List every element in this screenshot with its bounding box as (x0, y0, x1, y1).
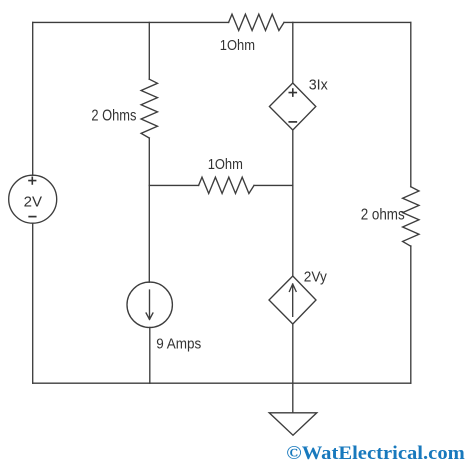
wire mid-left vertical middle (148, 138, 150, 282)
wire middle horizontal right (254, 184, 293, 186)
svg-text:9 Amps: 9 Amps (156, 336, 201, 353)
wire mid-right vertical top (292, 22, 294, 83)
dependent source E2 arrow (289, 284, 296, 316)
wire bottom (33, 382, 411, 384)
wire right upper (410, 22, 412, 186)
svg-text:2V: 2V (24, 193, 43, 210)
svg-text:2 Ohms: 2 Ohms (91, 107, 136, 124)
voltage source V1 minus sign (29, 216, 36, 218)
wire mid-right vertical middle (292, 130, 294, 276)
voltage source V1 plus sign (29, 177, 36, 184)
svg-text:2Vy: 2Vy (304, 268, 327, 285)
wire mid-right vertical bottom (292, 324, 294, 413)
wire left lower (32, 223, 34, 383)
wire left upper (32, 22, 34, 175)
svg-text:©WatElectrical.com: ©WatElectrical.com (286, 443, 465, 464)
dependent source E1 3Ix diamond (269, 83, 315, 130)
resistor R3 1Ohm (middle) (199, 177, 254, 193)
wire right lower (410, 246, 412, 383)
ground (269, 413, 317, 435)
svg-text:1Ohm: 1Ohm (220, 37, 255, 54)
wire top-left segment (33, 21, 229, 23)
resistor R2 2 Ohms (vertical) (141, 79, 157, 138)
voltage source V1 2V circle (9, 175, 57, 223)
svg-text:1Ohm: 1Ohm (208, 156, 243, 173)
dependent source E2 2Vy diamond (269, 276, 316, 324)
wire mid-left vertical top (148, 22, 150, 79)
wire middle horizontal left (149, 184, 198, 186)
svg-text:3Ix: 3Ix (309, 76, 328, 93)
dependent source E1 plus sign (289, 89, 296, 96)
current source I1 9 Amps circle (127, 282, 172, 327)
current source I1 arrow (146, 290, 153, 319)
resistor R4 2 ohms (right) (403, 187, 419, 246)
wire mid-left vertical bottom (149, 327, 151, 383)
svg-text:2 ohms: 2 ohms (361, 207, 405, 224)
wire top-right segment (284, 21, 411, 23)
resistor R1 1Ohm (top) (229, 14, 284, 30)
dependent source E1 minus sign (289, 121, 296, 123)
